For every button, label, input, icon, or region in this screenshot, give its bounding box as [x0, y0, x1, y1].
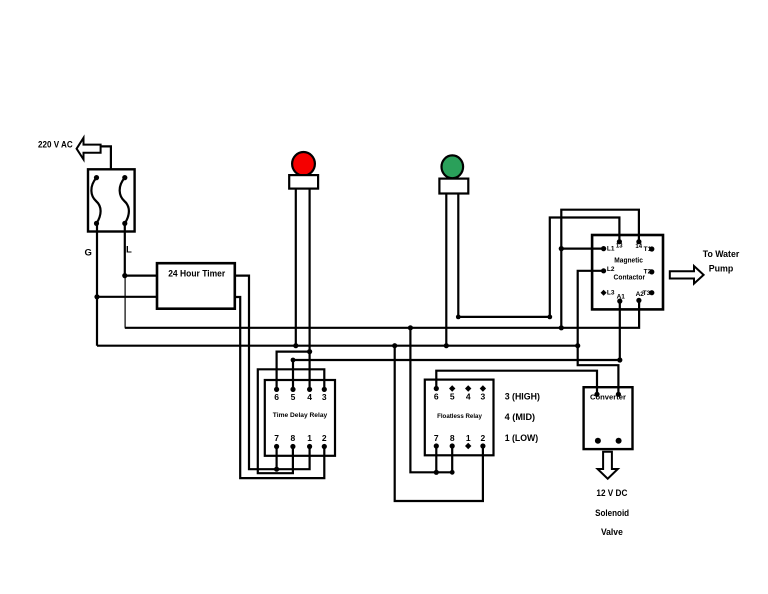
wire G-line drop to FLR pin 2 [395, 346, 483, 501]
svg-text:Magnetic: Magnetic [614, 256, 643, 265]
node pin7 floatless junction [434, 470, 439, 475]
node converter dot left [595, 438, 601, 444]
wire green lamp right leg to contactor 13 [458, 194, 619, 317]
node red-left on G-line [293, 343, 298, 348]
wire red lamp right leg to TDR pin 4 [309, 189, 311, 390]
wire timer right-upper to TDR pins 7,1 [235, 276, 310, 470]
wire L2 to converter right [578, 271, 619, 395]
svg-text:7: 7 [434, 433, 439, 443]
lamp red pilot light [292, 152, 315, 176]
svg-text:4: 4 [466, 392, 471, 402]
svg-text:4: 4 [307, 392, 312, 402]
svg-text:2: 2 [481, 433, 486, 443]
node G-line end on L2 drop [575, 343, 580, 348]
fuse box F1 (disconnect) [88, 169, 135, 231]
node pin5 corner [291, 358, 296, 363]
svg-text:3: 3 [322, 392, 327, 402]
svg-text:L1: L1 [607, 246, 615, 253]
svg-text:1: 1 [466, 433, 471, 443]
svg-text:T2: T2 [644, 269, 652, 276]
arrow AC input (block arrow pointing left) [77, 138, 101, 160]
terminal T1 [649, 246, 654, 251]
svg-text:6: 6 [434, 392, 439, 402]
svg-text:5: 5 [450, 392, 455, 402]
svg-text:2: 2 [322, 433, 327, 443]
lamp green pilot light [442, 155, 464, 178]
terminal L2 [601, 268, 606, 273]
svg-text:G: G [85, 248, 92, 259]
svg-text:12 V DC: 12 V DC [596, 488, 627, 498]
node L riser at L1 [559, 246, 564, 251]
svg-text:8: 8 [291, 433, 296, 443]
arrow to water pump (block arrow right) [670, 266, 704, 284]
node corner green wire left elbow [456, 315, 461, 320]
node L riser on L-line [559, 325, 564, 330]
terminal 13 [617, 239, 622, 244]
svg-text:Solenoid: Solenoid [595, 508, 629, 518]
svg-text:Valve: Valve [601, 527, 623, 537]
svg-text:L2: L2 [607, 266, 615, 273]
wire L-line horizontal to A2 [125, 300, 639, 327]
svg-text:A2: A2 [636, 291, 645, 298]
TDR pin 3 [322, 387, 327, 392]
node green-left on G-line [444, 343, 449, 348]
wire TDR pin6 up to pin4 node [277, 352, 310, 390]
floatless relay box [425, 380, 494, 456]
wire G to timer lower-left [97, 296, 157, 298]
terminal 14 [636, 239, 641, 244]
converter box [584, 387, 633, 449]
wire L to timer upper-left [125, 275, 157, 277]
svg-text:L: L [126, 245, 132, 256]
node converter right input [616, 392, 621, 397]
svg-text:Contactor: Contactor [614, 273, 646, 282]
svg-text:1: 1 [307, 433, 312, 443]
svg-text:1 (LOW): 1 (LOW) [505, 433, 539, 443]
terminal L3 [601, 290, 607, 296]
wire G-line horizontal [97, 345, 578, 347]
node converter left input [594, 392, 599, 397]
wire timer right-lower to TDR pin 2 [235, 297, 324, 478]
wire G vertical [96, 224, 98, 346]
wire arrow to fuse box top [101, 146, 111, 169]
node converter dot right [616, 438, 622, 444]
svg-text:13: 13 [616, 244, 623, 250]
wire TDR pin3 wrap to pin8 [258, 369, 325, 473]
node G drop on G-line [392, 343, 397, 348]
node pin7 junction [274, 467, 279, 472]
wire L-line drop to FLR pins 7,8 [410, 328, 452, 473]
wire TDR pin7 drop [276, 447, 278, 470]
wire L vertical [124, 223, 126, 275]
svg-text:14: 14 [635, 244, 642, 250]
node L drop on L-line [408, 325, 413, 330]
wire L to contactor 14 riser [561, 210, 639, 328]
node pin8 floatless corner [450, 470, 455, 475]
node A1 meets pin5 line [617, 357, 622, 362]
svg-text:7: 7 [274, 433, 279, 443]
wire red lamp left leg [295, 189, 297, 346]
svg-text:3: 3 [481, 392, 486, 402]
TDR pin 4 [307, 387, 312, 392]
TDR pin 5 [290, 387, 295, 392]
FLR pin 3 [480, 385, 486, 391]
svg-text:4 (MID): 4 (MID) [505, 412, 535, 422]
node G-timer junction [94, 294, 99, 299]
timer box 24 Hour Timer [157, 263, 235, 309]
svg-text:6: 6 [274, 392, 279, 402]
fuse element left [91, 178, 100, 224]
wire A1 drop [619, 301, 621, 360]
node red-right junction pin6 wire [307, 349, 312, 354]
svg-text:5: 5 [291, 392, 296, 402]
time delay relay box [265, 380, 335, 456]
wire FLR pin7 drop [435, 446, 437, 472]
terminal T2 [649, 269, 654, 274]
node L-timer junction [122, 273, 127, 278]
FLR pin 4 [465, 385, 471, 391]
terminal T3 [649, 290, 654, 295]
wire green lamp left leg [445, 194, 447, 346]
svg-text:3 (HIGH): 3 (HIGH) [505, 392, 540, 402]
FLR pin 6 [434, 386, 439, 391]
wire TDR pin5 to A1 (pin5 line) [293, 360, 620, 389]
svg-text:To Water: To Water [703, 249, 740, 259]
svg-text:Time Delay Relay: Time Delay Relay [273, 412, 328, 419]
fuse element right [120, 178, 129, 224]
svg-text:Floatless Relay: Floatless Relay [437, 413, 482, 420]
terminal L1 [601, 246, 606, 251]
svg-text:8: 8 [450, 433, 455, 443]
TDR pin 6 [274, 387, 279, 392]
svg-text:T1: T1 [644, 246, 652, 253]
svg-text:24 Hour Timer: 24 Hour Timer [168, 268, 225, 278]
node corner green wire [547, 315, 552, 320]
svg-text:220 V AC: 220 V AC [38, 140, 73, 150]
contactor box [592, 235, 663, 309]
svg-text:Pump: Pump [709, 264, 734, 274]
wire riser to L1 [561, 248, 603, 250]
FLR pin 5 [449, 385, 455, 391]
svg-text:L3: L3 [607, 290, 615, 297]
wire L vertical thin drop [124, 276, 126, 328]
arrow converter down [598, 452, 618, 479]
wire FLR pin6 to converter left [436, 371, 597, 395]
